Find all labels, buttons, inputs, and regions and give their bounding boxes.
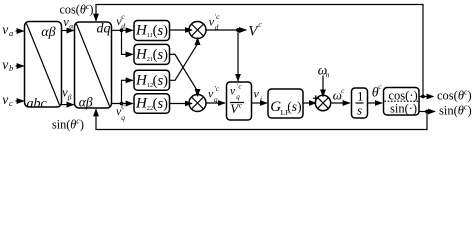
svg-text:c: c xyxy=(121,102,125,111)
svg-text:c: c xyxy=(9,98,13,108)
svg-text:c: c xyxy=(378,82,382,91)
svg-text:n: n xyxy=(326,70,330,79)
svg-text:αβ: αβ xyxy=(41,25,55,40)
svg-text:v: v xyxy=(2,22,8,37)
svg-text:c: c xyxy=(239,100,243,109)
svg-text:(s): (s) xyxy=(153,23,169,39)
svg-text:′c: ′c xyxy=(214,84,220,93)
svg-text:cos(·): cos(·) xyxy=(389,88,418,102)
svg-text:c: c xyxy=(258,20,262,29)
svg-text:q: q xyxy=(121,113,125,122)
svg-text:′c: ′c xyxy=(237,82,243,90)
svg-text:b: b xyxy=(9,63,13,73)
svg-text:cos(θc): cos(θc) xyxy=(437,88,472,103)
svg-text:(s): (s) xyxy=(153,96,169,112)
svg-text:v: v xyxy=(2,92,8,107)
svg-text:(s): (s) xyxy=(287,99,301,114)
svg-text:α: α xyxy=(69,21,74,30)
svg-text:αβ: αβ xyxy=(79,94,93,109)
svg-text:c: c xyxy=(121,12,125,21)
svg-text:(s): (s) xyxy=(153,47,169,63)
svg-text:abc: abc xyxy=(27,97,48,112)
svg-text:cos(θc): cos(θc) xyxy=(60,2,94,17)
svg-text:q: q xyxy=(214,95,218,104)
svg-text:d: d xyxy=(121,22,125,31)
svg-text:c: c xyxy=(341,86,345,95)
svg-text:v: v xyxy=(230,86,236,98)
svg-text:(s): (s) xyxy=(153,73,169,89)
svg-text:sin(θc): sin(θc) xyxy=(439,103,472,118)
svg-text:β: β xyxy=(67,92,72,101)
svg-text:i: i xyxy=(260,95,262,104)
svg-text:s: s xyxy=(357,102,362,117)
svg-text:sin(·): sin(·) xyxy=(390,102,417,116)
svg-text:dq: dq xyxy=(97,22,111,37)
svg-text:sin(θc): sin(θc) xyxy=(52,117,84,132)
svg-text:v: v xyxy=(254,87,260,101)
svg-text:v: v xyxy=(2,57,8,72)
svg-text:d: d xyxy=(215,22,219,31)
svg-text:′c: ′c xyxy=(215,12,221,21)
svg-text:a: a xyxy=(9,28,13,38)
